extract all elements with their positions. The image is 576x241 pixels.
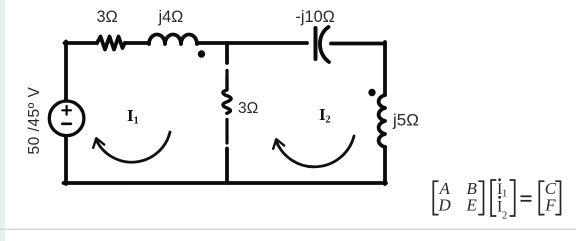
svg-text:I1: I1 bbox=[127, 106, 139, 127]
wire top-left horizontal bbox=[65, 41, 98, 45]
wire left vertical upper bbox=[64, 42, 68, 101]
svg-text:-j10Ω: -j10Ω bbox=[296, 8, 335, 26]
svg-text:j4Ω: j4Ω bbox=[158, 8, 184, 26]
node dot at L2 top bbox=[368, 89, 375, 96]
resistor R2 3ohm middle squiggle bbox=[223, 77, 231, 113]
svg-text:3Ω: 3Ω bbox=[238, 100, 258, 117]
wire middle branch top stub bbox=[225, 43, 229, 63]
svg-text:I2: I2 bbox=[319, 105, 331, 126]
capacitor C1 left plate bbox=[314, 28, 318, 59]
svg-text:D: D bbox=[438, 196, 452, 215]
mesh arrow I1 arc bbox=[96, 132, 170, 162]
equation bracket [ of coefficient matrix bbox=[433, 181, 438, 214]
wire middle branch long dash bbox=[225, 120, 228, 144]
svg-text:j5Ω: j5Ω bbox=[392, 111, 419, 130]
wire middle branch short dash bbox=[225, 71, 228, 77]
voltage source minus sign bbox=[62, 123, 71, 126]
inductor L1 j4ohm bbox=[149, 35, 197, 45]
wire between R1 and L1 bbox=[125, 41, 149, 45]
node dot at L1 right bbox=[198, 50, 205, 57]
wire middle branch bottom solid bbox=[225, 149, 229, 184]
faint bottom rule bbox=[0, 229, 576, 231]
equation bracket ] of current vector bbox=[510, 180, 515, 216]
wire bottom bbox=[64, 181, 387, 185]
equation bracket [ of rhs vector bbox=[539, 181, 544, 214]
equation bracket [ of current vector bbox=[491, 180, 496, 216]
resistor R1 3ohm zigzag bbox=[97, 37, 125, 50]
wire L1 to capacitor bbox=[197, 41, 307, 45]
wire right vertical lower bbox=[383, 147, 387, 184]
mesh arrow I2 head bbox=[273, 139, 284, 149]
svg-text:3Ω: 3Ω bbox=[97, 8, 118, 26]
svg-text:2: 2 bbox=[502, 211, 507, 222]
wire capacitor to top-right corner bbox=[331, 42, 385, 46]
mesh arrow I2 arc bbox=[276, 136, 354, 167]
svg-text:E: E bbox=[466, 196, 478, 215]
mesh arrow I1 head bbox=[93, 138, 104, 148]
page left margin strip bbox=[0, 0, 5, 241]
wire left vertical lower bbox=[64, 136, 68, 184]
inductor L2 j5ohm vertical coil bbox=[379, 95, 385, 147]
voltage source plus sign bbox=[62, 106, 71, 115]
capacitor C1 curved plate bbox=[320, 27, 329, 62]
svg-text:1: 1 bbox=[502, 189, 507, 200]
equation bracket ] of coefficient matrix bbox=[478, 181, 483, 214]
equation equals sign bbox=[521, 196, 532, 201]
equation bracket ] of rhs vector bbox=[555, 181, 560, 214]
svg-text:50 /45º V: 50 /45º V bbox=[26, 86, 43, 154]
voltage source V1 circle bbox=[49, 101, 84, 136]
wire right vertical upper bbox=[383, 42, 387, 95]
svg-text:F: F bbox=[544, 196, 556, 215]
